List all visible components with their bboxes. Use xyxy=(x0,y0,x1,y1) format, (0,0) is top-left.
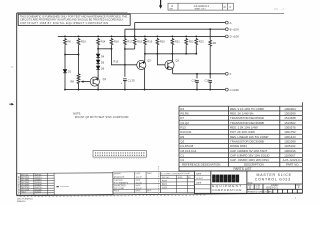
dec/dwg chart xyxy=(158,166,160,194)
svg-text:CORPORATION: CORPORATION xyxy=(212,188,242,192)
svg-text:R10: R10 xyxy=(81,40,86,44)
wire link c1-c2 xyxy=(65,54,79,56)
svg-text:TRANSISTOR DEC6534D: TRANSISTOR DEC6534D xyxy=(230,116,264,120)
transistor Q1 xyxy=(90,77,99,86)
svg-text:C8,C13,C14: C8,C13,C14 xyxy=(180,149,196,153)
svg-text:C2: C2 xyxy=(180,158,184,162)
copyright note box xyxy=(18,14,130,25)
wire +10V bus xyxy=(58,35,226,37)
svg-text:REFERENCE DESIGNATION: REFERENCE DESIGNATION xyxy=(182,163,220,167)
svg-text:A: A xyxy=(171,4,173,8)
svg-text:1-0-G023-0-1: 1-0-G023-0-1 xyxy=(194,4,210,8)
svg-text:RES. 2K 1/4W 5%: RES. 2K 1/4W 5% xyxy=(230,112,254,116)
terminal C GND xyxy=(225,88,228,91)
svg-text:RES. 3.1K 10% TO COMP: RES. 3.1K 10% TO COMP xyxy=(230,107,264,111)
svg-text:1000016: 1000016 xyxy=(284,149,296,153)
svg-text:C16: C16 xyxy=(192,78,197,82)
resistor R20 xyxy=(156,38,159,46)
svg-text:R23: R23 xyxy=(199,40,204,44)
diode D6 xyxy=(96,66,100,69)
wire to Q1 collector xyxy=(97,69,99,78)
svg-text:R4: R4 xyxy=(180,107,184,111)
wire Q3 emitter to F xyxy=(172,68,174,74)
svg-text:R20: R20 xyxy=(160,40,165,44)
svg-text:DATE: DATE xyxy=(136,179,141,182)
svg-text:R15: R15 xyxy=(114,60,119,64)
wire c4 to Q2 base xyxy=(112,45,138,64)
wire c7 to Q2 collector xyxy=(144,45,146,62)
svg-text:CHECKED: CHECKED xyxy=(114,180,124,182)
svg-text:1513562: 1513562 xyxy=(284,121,296,125)
wire c2 xyxy=(78,45,80,73)
svg-text:D +10V: D +10V xyxy=(230,35,240,39)
svg-text:D1,D5-D8: D1,D5-D8 xyxy=(180,144,193,148)
junction dots xyxy=(64,28,211,90)
wire riser c5 to B xyxy=(124,29,126,38)
svg-text:NO.: NO. xyxy=(188,177,192,179)
svg-text:ENGINEERED: ENGINEERED xyxy=(114,185,127,187)
resistor R14 xyxy=(97,38,100,46)
svg-text:1301752: 1301752 xyxy=(284,130,296,134)
svg-text:G023-0-1: G023-0-1 xyxy=(266,186,278,190)
svg-text:A: A xyxy=(230,21,232,25)
svg-text:1301443: 1301443 xyxy=(284,135,296,139)
svg-text:Q2: Q2 xyxy=(147,59,151,63)
svg-text:CAP. 100MFD 6V 10% TANT: CAP. 100MFD 6V 10% TANT xyxy=(230,149,268,153)
svg-text:1513488: 1513488 xyxy=(284,116,296,120)
svg-text:DATE: DATE xyxy=(136,172,141,175)
svg-text:10-2-67: 10-2-67 xyxy=(136,177,142,179)
resistor R17 xyxy=(124,38,127,46)
svg-text:R6: R6 xyxy=(68,40,72,44)
svg-text:TITLE: TITLE xyxy=(248,182,254,184)
svg-text:MASTER SLICE: MASTER SLICE xyxy=(257,173,292,177)
svg-text:R19: R19 xyxy=(147,40,152,44)
svg-text:Q3: Q3 xyxy=(175,59,179,63)
svg-text:C GND: C GND xyxy=(230,88,239,92)
svg-text:Q1,Q2: Q1,Q2 xyxy=(180,121,189,125)
svg-text:1300599: 1300599 xyxy=(284,112,296,116)
svg-text:CAP. 6.8MFD 35V 10% SOLID: CAP. 6.8MFD 35V 10% SOLID xyxy=(230,154,269,158)
capacitor C1 xyxy=(123,79,127,81)
wire xyxy=(97,63,99,66)
svg-text:TRANSISTOR DEC3639B: TRANSISTOR DEC3639B xyxy=(230,121,264,125)
edge connector xyxy=(93,151,147,159)
svg-text:D1: D1 xyxy=(68,70,72,74)
svg-text:R5,R6: R5,R6 xyxy=(180,112,189,116)
svg-text:F: F xyxy=(298,186,300,190)
wire net y53.8 xyxy=(145,53,196,55)
svg-text:R17: R17 xyxy=(127,40,132,44)
svg-text:CAP. .01MFD 100V 20% DISC: CAP. .01MFD 100V 20% DISC xyxy=(230,158,269,162)
svg-text:R21: R21 xyxy=(175,40,180,44)
wire xyxy=(97,57,99,60)
svg-text:M.VALLEE: M.VALLEE xyxy=(114,176,125,179)
resistor R19 xyxy=(144,38,147,46)
potentiometer R8 xyxy=(77,73,80,90)
capacitor C16 column xyxy=(196,74,198,79)
svg-text:CS: CS xyxy=(256,186,260,190)
top revision strip xyxy=(168,3,233,10)
svg-text:DESCRIPTION: DESCRIPTION xyxy=(244,163,264,167)
wire Q1 emitter xyxy=(97,85,99,90)
svg-text:DATE: DATE xyxy=(196,181,202,184)
svg-text:C1: C1 xyxy=(180,154,184,158)
svg-text:DATE: DATE xyxy=(136,189,141,192)
svg-text:D664: D664 xyxy=(21,192,26,194)
svg-text:DATE: DATE xyxy=(196,172,202,175)
svg-text:SEMICONDUCTOR: SEMICONDUCTOR xyxy=(18,175,20,193)
wire ground rail xyxy=(65,89,225,91)
wire c10 tail xyxy=(185,45,187,53)
resistor R18 xyxy=(133,38,136,46)
svg-text:D5: D5 xyxy=(101,61,105,65)
link c3-c4 xyxy=(98,48,111,50)
svg-text:10-9-67: 10-9-67 xyxy=(196,178,204,180)
wire c8 to Q3 base xyxy=(157,45,165,64)
wire c1 xyxy=(64,45,66,69)
wire riser c6 to A xyxy=(134,23,136,38)
svg-text:MOUNT Q8 WITH HEAT SINK COMPOU: MOUNT Q8 WITH HEAT SINK COMPOUND xyxy=(75,116,129,119)
svg-text:W.P.: W.P. xyxy=(147,190,152,192)
wire c11 tail xyxy=(195,45,197,53)
top arrow xyxy=(159,0,162,9)
svg-text:A-PL-G023-0-1: A-PL-G023-0-1 xyxy=(283,158,303,162)
svg-text:DEC NO.: DEC NO. xyxy=(162,177,170,179)
zone tick left xyxy=(9,103,12,105)
svg-text:D: D xyxy=(224,5,226,9)
svg-text:POT. 2K 20% 3/4W: POT. 2K 20% 3/4W xyxy=(230,130,255,134)
svg-text:D.C & DWG. CONVERSION CHART: D.C & DWG. CONVERSION CHART xyxy=(161,172,191,175)
wire Q2 emitter xyxy=(144,68,146,89)
svg-text:Q3: Q3 xyxy=(180,140,184,144)
capacitor C17 xyxy=(208,80,212,82)
wire c12 xyxy=(209,47,211,79)
resistor R23 xyxy=(195,38,198,46)
svg-text:C023: C023 xyxy=(162,187,168,189)
wire c5 xyxy=(124,45,126,76)
svg-text:RES. LINEAR 10K 5% COMP: RES. LINEAR 10K 5% COMP xyxy=(230,135,268,139)
svg-text:DIODE D664: DIODE D664 xyxy=(230,144,247,148)
svg-text:g: g xyxy=(221,176,224,181)
svg-text:IN3606: IN3606 xyxy=(35,192,41,194)
diode D1 xyxy=(63,70,67,73)
svg-text:l: l xyxy=(237,176,238,181)
svg-text:R22: R22 xyxy=(189,40,194,44)
svg-text:B023: B023 xyxy=(162,184,168,186)
bottom zone ticks xyxy=(20,195,205,197)
terminal D +10V xyxy=(225,35,228,38)
svg-text:PROD: PROD xyxy=(114,190,120,192)
wire c1 lower xyxy=(64,73,66,90)
svg-text:i: i xyxy=(225,176,226,181)
svg-text:1300576: 1300576 xyxy=(284,126,296,130)
svg-text:PRINTED CIRCUIT REV.: PRINTED CIRCUIT REV. xyxy=(248,192,273,194)
diode D4 xyxy=(96,54,100,57)
svg-text:R8: R8 xyxy=(71,80,75,84)
signature block xyxy=(113,172,160,193)
resistor R10 xyxy=(77,38,80,46)
svg-text:F: F xyxy=(230,72,232,76)
transistor Q2 xyxy=(137,60,146,69)
svg-text:R9: R9 xyxy=(180,135,184,139)
svg-text:PART NO.: PART NO. xyxy=(286,163,300,167)
svg-text:CONTROL G023: CONTROL G023 xyxy=(255,178,291,182)
svg-text:R14: R14 xyxy=(101,40,106,44)
svg-text:D6: D6 xyxy=(101,67,105,71)
svg-text:1100067: 1100067 xyxy=(284,154,295,158)
svg-text:C17: C17 xyxy=(205,78,210,82)
svg-text:R4: R4 xyxy=(213,41,217,45)
wire c12 lower xyxy=(209,83,211,90)
terminal B +10V xyxy=(225,28,228,31)
resistor R6 xyxy=(64,38,67,46)
resistor R4 column from net B xyxy=(209,29,211,39)
svg-text:Q1: Q1 xyxy=(103,77,107,81)
svg-text:TRANSISTOR DEC3009B: TRANSISTOR DEC3009B xyxy=(230,140,264,144)
wire F rail xyxy=(173,73,226,75)
svg-text:1105100: 1105100 xyxy=(284,144,295,148)
diode D5 xyxy=(96,60,100,63)
wire c5 lower xyxy=(124,81,126,90)
svg-text:DRAWN: DRAWN xyxy=(114,172,121,175)
svg-text:R7: R7 xyxy=(180,116,184,120)
terminal F xyxy=(225,72,228,75)
svg-text:A023: A023 xyxy=(162,179,168,182)
svg-text:R18: R18 xyxy=(137,40,142,44)
svg-text:a: a xyxy=(232,176,235,181)
resistor R16 xyxy=(110,38,113,46)
link c5-c6 xyxy=(125,48,135,50)
svg-text:R16: R16 xyxy=(114,40,119,44)
svg-text:D4: D4 xyxy=(101,55,105,59)
digital logo xyxy=(212,175,242,192)
wire net B xyxy=(125,28,225,30)
svg-text:1300364: 1300364 xyxy=(284,107,296,111)
svg-text:B: B xyxy=(249,186,251,190)
svg-text:R10,R11: R10,R11 xyxy=(180,130,192,134)
terminal A xyxy=(225,21,228,24)
svg-text:RES. 1.5K 10% 1/4W: RES. 1.5K 10% 1/4W xyxy=(230,126,258,130)
semiconductor conversion chart xyxy=(17,173,113,195)
wiper arrow to Q1 base xyxy=(83,81,90,83)
svg-text:DRA 110: DRA 110 xyxy=(17,200,26,203)
svg-text:C1 35: C1 35 xyxy=(128,78,135,82)
wire net A xyxy=(135,22,226,24)
svg-text:i: i xyxy=(217,176,218,181)
wire c9 to Q3 collector xyxy=(171,45,173,62)
svg-text:DATE: DATE xyxy=(147,172,152,175)
svg-text:d: d xyxy=(213,176,216,181)
resistor R21 xyxy=(171,38,174,46)
wire c3 xyxy=(97,45,99,54)
resistor R22 xyxy=(185,38,188,46)
svg-text:DWG.: DWG. xyxy=(178,177,183,179)
svg-text:1302099: 1302099 xyxy=(284,140,296,144)
svg-text:DATE: DATE xyxy=(136,184,141,187)
svg-text:COPYRIGHT 1968 BY DIGITAL EQUI: COPYRIGHT 1968 BY DIGITAL EQUIPMENT CORP… xyxy=(20,22,108,25)
svg-text:SHEET 1 OF 1: SHEET 1 OF 1 xyxy=(195,9,206,11)
wire c6 tail xyxy=(134,45,136,49)
sheet border xyxy=(17,13,303,196)
transistor Q3 xyxy=(165,60,174,69)
svg-text:B +10V: B +10V xyxy=(230,27,239,31)
svg-text:R13: R13 xyxy=(180,126,186,130)
